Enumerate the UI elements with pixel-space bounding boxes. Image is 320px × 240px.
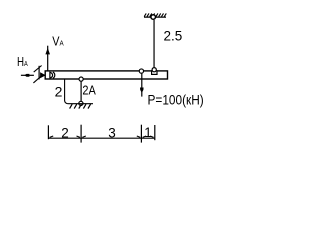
V_A arrow (45, 46, 50, 71)
hinge circle at ground (79, 101, 83, 105)
ceiling hatches (144, 13, 166, 16)
dim tick P (140, 125, 142, 143)
link arrowhead at A (40, 72, 46, 78)
strut rod under beam (80, 79, 82, 103)
H_A arrow (21, 74, 34, 77)
hinge circle at rod-beam joint (152, 68, 156, 72)
svg-text:2: 2 (55, 83, 63, 99)
pin block at rod-beam joint (152, 71, 157, 75)
hanger rod 2.5 (153, 20, 155, 68)
hinge circle at P (139, 69, 143, 73)
dim tick strut (80, 125, 82, 143)
svg-text:2A: 2A (82, 83, 96, 97)
pin at A (50, 72, 55, 79)
ground hatches (70, 104, 91, 109)
beam (45, 71, 167, 79)
svg-text:P=100(кН): P=100(кН) (148, 92, 204, 107)
thin rod with hook (65, 79, 68, 103)
dim arrow dashes (50, 136, 154, 137)
svg-text:2.5: 2.5 (164, 29, 183, 44)
svg-text:3: 3 (108, 125, 116, 140)
dim tick left (47, 125, 49, 139)
P arrow (140, 74, 144, 97)
svg-text:1: 1 (144, 125, 152, 140)
ceiling line (144, 16, 166, 18)
hinge circle at beam bottom (79, 77, 83, 81)
wall at A (38, 66, 40, 80)
svg-text:2: 2 (61, 125, 69, 140)
wall hatch (33, 66, 42, 83)
ground line (68, 103, 93, 105)
dim tick right (154, 125, 156, 140)
hinge circle at ceiling (151, 15, 156, 20)
dimension line (48, 137, 154, 139)
